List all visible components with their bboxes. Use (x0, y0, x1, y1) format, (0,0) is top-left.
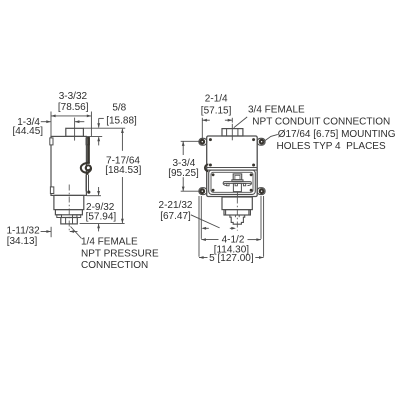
svg-text:[34.13]: [34.13] (7, 236, 38, 247)
dimension 7-17/64 [184.53]: text (105, 156, 141, 176)
svg-text:[15.88]: [15.88] (106, 115, 137, 126)
dimension 2-21/32 [67.47]: text (159, 200, 193, 222)
label: 3/4 FEMALE NPT CONDUIT CONNECTION (248, 105, 390, 128)
svg-text:[184.53]: [184.53] (105, 165, 141, 176)
leader: 1/4 NPT pressure connection (71, 227, 82, 239)
dimension 2-9/32 [57.94]: arrows (97, 187, 100, 231)
front view: hinge clamp (205, 164, 208, 171)
svg-text:3/4 FEMALE: 3/4 FEMALE (248, 105, 305, 116)
svg-text:3-3/32: 3-3/32 (59, 91, 88, 102)
left view: base left nub (57, 215, 62, 218)
dimension 5/8 [15.88]: leader elbow and down arrow (97, 118, 104, 128)
svg-text:1/4 FEMALE: 1/4 FEMALE (81, 237, 138, 248)
dimension 2-1/4 [57.15]: text (201, 94, 232, 117)
svg-text:2-21/32: 2-21/32 (159, 200, 193, 211)
front view: top-right mounting ear (257, 138, 265, 145)
left view: switch body outline (51, 136, 86, 195)
left view: vertical centerline (68, 185, 70, 232)
left view: base step 2 (55, 210, 82, 215)
svg-text:[44.45]: [44.45] (13, 126, 44, 137)
front view: switch flange (232, 180, 243, 182)
label: mounting holes note (277, 129, 396, 152)
dimension 2-1/4 [57.15]: arrows (202, 119, 232, 122)
dimension 5 [127.00]: text (209, 253, 254, 264)
dimension 5/8 [15.88]: text (106, 103, 137, 127)
left view: lever lower outline right (88, 175, 90, 192)
front view: fitting center nubs (235, 215, 239, 217)
dimension 4-1/2 [114.30]: text (214, 235, 250, 256)
dimension 5 [127.00]: dimension line (199, 256, 264, 259)
front view: pressure fitting lower steps (226, 210, 249, 225)
svg-text:NPT CONDUIT CONNECTION: NPT CONDUIT CONNECTION (252, 117, 390, 128)
svg-text:5 [127.00]: 5 [127.00] (209, 253, 254, 264)
dimension 3-3/32 [78.56]: extension lines (51, 112, 91, 137)
front view: enclosure corner screws (209, 138, 255, 166)
dimension 1-3/4 [44.45]: text (13, 117, 44, 137)
dimension 2-9/32 [57.94]: text (86, 202, 117, 222)
dimension 3-3/32 [78.56]: text (58, 91, 89, 113)
front view: terminal teeth (227, 183, 246, 185)
svg-text:[57.15]: [57.15] (201, 106, 232, 117)
front view: cover joint lines (207, 168, 258, 171)
dimension 3-3/32 [78.56]: dimension line (51, 115, 91, 118)
dimension 1-3/4 [44.45]: right arrow (75, 120, 85, 123)
reference line: fitting bottom extended (80, 222, 125, 224)
svg-text:1-11/32: 1-11/32 (7, 225, 41, 236)
left view: upper right tab (86, 138, 89, 145)
front view: cover plate (209, 170, 256, 194)
dimension 4-1/2 [114.30]: dimension line (201, 238, 261, 241)
dimension 1-11/32 [34.13]: text (7, 225, 41, 247)
left view: base step 1 (54, 195, 84, 209)
svg-text:Ø17/64 [6.75] MOUNTING: Ø17/64 [6.75] MOUNTING (278, 129, 396, 140)
svg-text:5/8: 5/8 (112, 103, 126, 114)
dimension 2-1/4 [57.15]: centerline tick (231, 118, 233, 123)
front view: fitting centerline (236, 198, 238, 231)
left view: upper left mounting tab (50, 138, 53, 145)
left view: base right nub (73, 215, 81, 218)
reference line: boss top extended (83, 127, 125, 129)
left view: adjustment lever shaft (87, 137, 90, 164)
dimension 2-21/32 [67.47]: arrows (202, 227, 236, 230)
left view: hex pressure fitting (61, 218, 78, 224)
front view: bottom-left mounting ear (199, 188, 207, 195)
front view: conduit centerline (231, 124, 233, 141)
svg-text:2-1/4: 2-1/4 (205, 94, 228, 105)
leader: conduit connection (234, 117, 247, 128)
dimension 1-11/32 [34.13]: arrows (41, 230, 78, 233)
front view: terminal bar (223, 182, 251, 186)
dimension 3-3/4 [95.25]: text (168, 158, 199, 179)
dimension 3-3/4 [95.25]: dimension line (182, 141, 185, 191)
front view: cover screws (212, 173, 253, 191)
front view: pressure fitting step 2 (224, 210, 250, 215)
dimension 2-21/32 [67.47]: leader (191, 215, 220, 228)
dimension 2-1/4 [57.15]: extension line (201, 118, 203, 139)
left view: lower left mounting tab (50, 187, 53, 194)
label: 1/4 FEMALE NPT PRESSURE CONNECTION (81, 237, 159, 272)
dimension 2-9/32 [57.94]: reference line upper (87, 195, 102, 197)
svg-text:[78.56]: [78.56] (58, 102, 89, 113)
svg-text:CONNECTION: CONNECTION (81, 260, 148, 271)
dimension 7-17/64 [184.53]: dimension line (121, 128, 124, 223)
svg-text:[57.94]: [57.94] (86, 211, 117, 222)
svg-text:[95.25]: [95.25] (168, 168, 199, 179)
front view: pressure fitting step 1 (222, 197, 252, 210)
front view: column stem (236, 192, 238, 197)
front view: conduit boss (222, 129, 243, 136)
left view: lever spring curl (81, 163, 91, 175)
dimension 3-3/4 [95.25]: reference lines (181, 141, 199, 191)
dimension 1-3/4 [44.45]: left arrow (41, 120, 51, 123)
extension lines below ears (199, 196, 264, 257)
left view: boss centerline (74, 118, 76, 141)
left view: top boss (66, 128, 84, 136)
dimension 1-11/32 [34.13]: extension line (50, 227, 52, 237)
leader: mounting holes (263, 134, 278, 142)
svg-text:[67.47]: [67.47] (160, 211, 191, 222)
front view: bottom-right mounting ear (257, 188, 265, 195)
reference line: body top extended (86, 135, 102, 137)
dimension 5/8 [15.88]: up arrow (97, 137, 100, 146)
front view: switch block (233, 174, 242, 180)
left view: lever lower outline left (85, 175, 87, 192)
front view: top-left mounting ear (199, 138, 207, 145)
svg-text:HOLES TYP 4 PLACES: HOLES TYP 4 PLACES (277, 141, 386, 152)
left view: lever end pivot dot (87, 191, 90, 194)
front view: enclosure box (207, 136, 258, 197)
svg-text:NPT PRESSURE: NPT PRESSURE (81, 248, 159, 259)
front view: switch column (233, 183, 241, 191)
